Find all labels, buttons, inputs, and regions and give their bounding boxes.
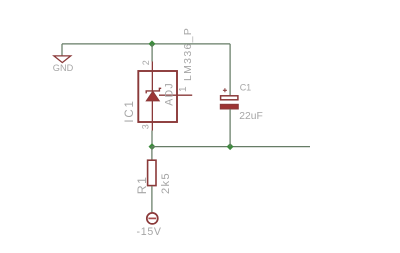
wire IC1 pin 3 down to bottom rail	[151, 131, 153, 147]
svg-text:22uF: 22uF	[239, 111, 262, 122]
wire bottom rail	[152, 146, 310, 148]
zener diode cathode bar inside IC1	[146, 88, 161, 93]
capacitor C1 bottom plate	[220, 104, 238, 109]
svg-text:C1: C1	[240, 83, 252, 93]
capacitor C1 top plate	[221, 96, 238, 100]
capacitor C1 plus sign	[223, 88, 227, 92]
wire C1 bottom plate to bottom rail	[229, 109, 231, 147]
pin 3 stub of IC1	[151, 122, 153, 131]
junction node bottom rail at R1	[149, 143, 156, 150]
ground GND symbol	[54, 56, 71, 63]
junction node at IC1 pin2 net	[149, 40, 156, 47]
svg-text:IC1: IC1	[124, 99, 136, 122]
svg-text:R1: R1	[135, 176, 149, 195]
svg-text:GND: GND	[53, 63, 74, 73]
wire top rail corner down to C1 plus	[229, 44, 231, 96]
wire top rail GND to C1	[62, 43, 230, 45]
pin 2 stub of IC1	[151, 62, 153, 72]
svg-text:-15V: -15V	[137, 226, 162, 238]
wire junction down to R1	[151, 147, 153, 160]
supply -15V minus bar	[148, 217, 156, 219]
svg-text:2k5: 2k5	[160, 172, 172, 194]
zener diode triangle inside IC1	[146, 91, 159, 101]
svg-text:1: 1	[178, 86, 189, 92]
svg-text:3: 3	[141, 124, 151, 129]
wire GND stem	[61, 44, 63, 56]
ADJ tap line to pin 1	[159, 94, 192, 96]
svg-text:ADJ: ADJ	[164, 82, 176, 106]
svg-text:2: 2	[141, 60, 151, 65]
IC IC1 body rectangle	[138, 71, 177, 122]
wire R1 to supply symbol	[151, 186, 153, 212]
svg-text:LM336_P: LM336_P	[182, 27, 194, 81]
resistor R1 body	[148, 160, 156, 185]
junction node bottom rail at C1	[227, 143, 234, 150]
wire internal vertical through IC1	[151, 71, 153, 122]
wire junction down to IC1 pin 2	[151, 44, 153, 62]
supply -15V circle symbol	[147, 213, 158, 224]
